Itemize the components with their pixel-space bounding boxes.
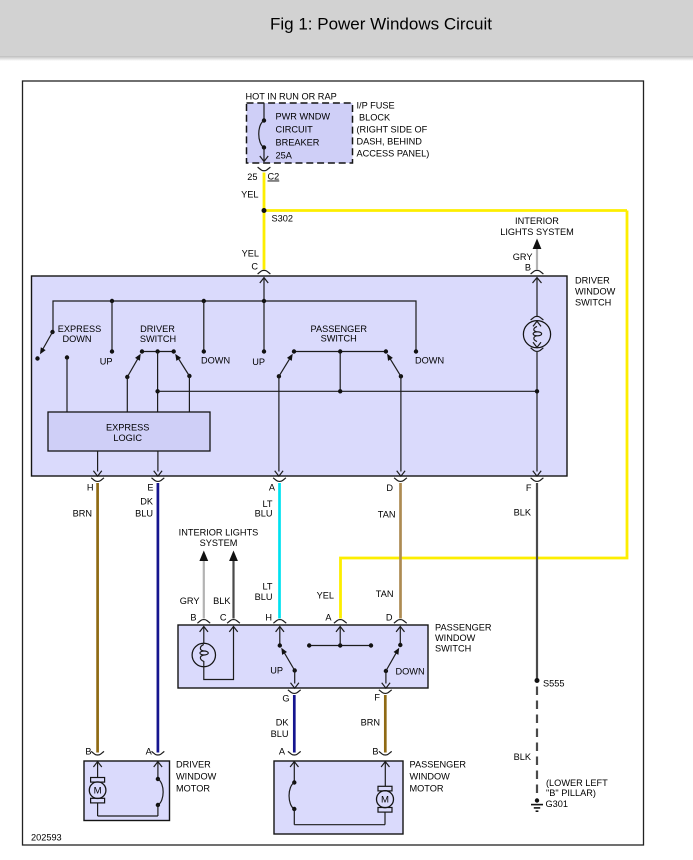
svg-text:MOTOR: MOTOR [410,784,444,794]
label I/P FUSE BLOCK (RIGHT SIDE OF DASH, BEHIND ACCESS PANEL) [357,101,430,159]
svg-text:UP: UP [252,357,265,367]
svg-text:PASSENGER: PASSENGER [311,324,368,334]
svg-text:MOTOR: MOTOR [176,784,210,794]
wire BRN F to motor B [384,695,387,753]
driver motor arc contact [154,762,163,816]
svg-text:SWITCH: SWITCH [435,644,471,654]
label PASSENGER WINDOW SWITCH [435,623,492,654]
connector E [147,478,164,493]
passenger motor bottom wire [294,824,385,826]
svg-text:G: G [282,694,289,704]
label PWR WNDW CIRCUIT BREAKER 25A [276,112,331,161]
passenger motor M symbol [377,762,394,825]
svg-text:F: F [374,693,380,703]
circuit breaker CB 25A [259,103,268,162]
svg-text:B: B [372,747,378,757]
svg-text:C: C [220,613,227,623]
driver switch UP contact [100,301,114,367]
svg-text:YEL: YEL [242,249,259,259]
connector G below passenger switch [282,690,300,704]
driver switch center wire [157,352,159,413]
svg-text:G301: G301 [546,799,568,809]
svg-text:B: B [85,747,91,757]
connector C dome (passenger switch) [227,620,240,624]
wire LT BLU A to passenger switch [278,483,281,619]
driver window motor box [84,761,170,821]
svg-text:I/P FUSE: I/P FUSE [357,101,395,111]
passenger switch DOWN arm [382,646,425,688]
driver switch DOWN contact [201,301,230,366]
passenger window motor box [274,761,403,834]
node bus / driver DOWN junction [202,299,206,303]
svg-text:(RIGHT SIDE OF: (RIGHT SIDE OF [357,125,428,135]
connector A dome (passenger switch) [334,620,347,624]
svg-text:HOT IN RUN OR RAP: HOT IN RUN OR RAP [246,92,337,102]
svg-text:(LOWER LEFT: (LOWER LEFT [546,778,608,788]
passenger switch contact row [292,349,388,353]
connector H dome (passenger switch) [273,620,286,624]
svg-text:H: H [87,483,94,493]
I/P fuse block box (dashed) [247,103,353,163]
svg-text:F: F [526,483,532,493]
svg-text:TAN: TAN [378,510,396,520]
svg-text:Fig 1: Power Windows Circuit: Fig 1: Power Windows Circuit [270,15,492,34]
svg-text:BLK: BLK [514,752,532,762]
svg-text:LOGIC: LOGIC [113,433,142,443]
express logic outputs [93,451,162,476]
svg-text:SWITCH: SWITCH [575,298,611,308]
svg-text:BLK: BLK [514,508,532,518]
label DRIVER WINDOW MOTOR [176,760,217,794]
connector B above passenger motor [372,747,391,757]
connector D dome (passenger switch) [394,620,407,624]
node center junction [155,389,159,393]
connector A [269,478,286,493]
svg-text:GRY: GRY [180,596,200,606]
svg-text:S555: S555 [543,679,564,689]
svg-text:WINDOW: WINDOW [435,633,476,643]
driver switch left arm [125,352,143,412]
svg-text:GRY: GRY [513,252,533,262]
svg-text:BLOCK: BLOCK [359,113,391,123]
driver window switch box [32,276,568,476]
wire DK BLU G to motor A [293,695,296,753]
connector C entry dome [258,270,271,274]
svg-text:M: M [94,786,102,797]
svg-text:SWITCH: SWITCH [321,334,357,344]
connector D [386,478,407,493]
connector F [526,478,544,493]
driver switch right arm [173,352,192,412]
passenger switch UP contact [252,349,266,367]
wire TAN D to passenger switch [399,483,402,619]
svg-text:DRIVER: DRIVER [575,276,610,286]
bus wire top [53,301,416,352]
svg-text:UP: UP [100,357,113,367]
driver motor bottom wire [98,815,158,817]
svg-text:25A: 25A [276,151,293,161]
wire horizontal link [158,390,537,392]
svg-text:DOWN: DOWN [396,667,425,677]
passenger window switch box [178,625,428,688]
passenger switch H wire [276,627,284,648]
svg-text:M: M [381,795,389,806]
INTERIOR LIGHTS SYSTEM (middle) [179,528,259,619]
passenger switch center wire [338,352,342,394]
svg-text:DRIVER: DRIVER [140,324,175,334]
passenger switch D wire [396,627,404,648]
svg-text:WINDOW: WINDOW [575,287,616,297]
svg-text:E: E [147,483,153,493]
svg-text:BLK: BLK [213,596,231,606]
svg-text:DRIVER: DRIVER [176,760,211,770]
svg-text:D: D [386,483,393,493]
svg-text:DOWN: DOWN [415,356,444,366]
svg-text:DOWN: DOWN [201,356,230,366]
driver switch contact row [140,349,176,353]
svg-text:EXPRESS: EXPRESS [58,324,101,334]
svg-text:S302: S302 [272,214,293,224]
svg-text:BLU: BLU [135,509,153,519]
passenger switch A wire [336,627,344,646]
svg-text:LT: LT [262,499,272,509]
svg-text:202593: 202593 [31,833,62,843]
connector F below passenger switch [374,690,391,703]
svg-text:DK: DK [276,718,290,728]
connector H below driver box [87,478,104,493]
svg-text:TAN: TAN [376,589,394,599]
splice S302 [262,208,267,213]
svg-text:B: B [525,263,531,273]
svg-text:DK: DK [140,497,154,507]
passenger motor arc contact [289,762,298,825]
wire DK BLU E to motor [157,483,160,753]
lamp circuit in passenger switch [192,627,238,680]
passenger switch bus row [307,643,373,647]
svg-text:INTERIOR: INTERIOR [515,216,559,226]
svg-text:25: 25 [247,172,257,182]
express down switch [35,330,69,412]
svg-text:WINDOW: WINDOW [176,772,217,782]
wire BLK dashed to ground [536,687,538,798]
svg-text:CIRCUIT: CIRCUIT [276,125,314,135]
svg-text:LT: LT [262,582,272,592]
svg-text:C2: C2 [268,172,280,182]
svg-text:H: H [265,613,272,623]
svg-text:A: A [269,483,276,493]
wire BLK F to S555 [536,483,538,680]
passenger switch UP arm [270,646,299,688]
svg-text:LIGHTS SYSTEM: LIGHTS SYSTEM [500,227,574,237]
svg-text:UP: UP [270,666,283,676]
svg-text:B: B [190,613,196,623]
wire YEL S302 right [264,209,627,212]
splice S555 [535,678,540,683]
svg-text:BRN: BRN [361,718,380,728]
svg-text:A: A [325,613,332,623]
svg-text:C: C [251,262,258,272]
driver motor M symbol [89,762,106,816]
svg-text:PASSENGER: PASSENGER [410,760,467,770]
svg-text:BRN: BRN [73,509,92,519]
page frame [23,81,644,845]
node bus / C entry junction [262,299,266,303]
svg-text:SWITCH: SWITCH [140,334,176,344]
connector B above driver motor [85,747,104,757]
connector B dome (passenger switch) [197,620,210,624]
svg-text:YEL: YEL [317,591,334,601]
wire YEL S302 to C [263,211,266,270]
connector A above driver motor [146,747,165,757]
svg-text:PASSENGER: PASSENGER [435,623,492,633]
wire YEL right side down [341,211,628,619]
node bus / driver UP junction [110,299,114,303]
svg-text:YEL: YEL [241,190,258,200]
svg-text:BLU: BLU [255,509,273,519]
ground G301 [531,798,543,811]
svg-text:A: A [279,747,286,757]
label PASSENGER WINDOW MOTOR [410,760,467,794]
label DRIVER WINDOW SWITCH [575,276,616,308]
svg-text:BLU: BLU [271,729,289,739]
express logic box [48,412,210,451]
svg-text:A: A [146,747,153,757]
svg-text:INTERIOR LIGHTS: INTERIOR LIGHTS [179,528,259,538]
lamp circuit in driver switch [523,278,550,477]
svg-text:BREAKER: BREAKER [276,138,320,148]
INTERIOR LIGHTS SYSTEM (top right) [500,216,574,274]
passenger switch DOWN contact [414,349,444,365]
svg-text:BLU: BLU [255,592,273,602]
passenger switch left arm [275,352,295,476]
svg-text:WINDOW: WINDOW [410,772,451,782]
passenger switch right arm [385,352,405,476]
svg-text:PWR WNDW: PWR WNDW [276,112,331,122]
wire BRN H to motor [96,483,99,753]
svg-text:EXPRESS: EXPRESS [106,423,149,433]
svg-text:SYSTEM: SYSTEM [200,538,238,548]
svg-text:ACCESS PANEL): ACCESS PANEL) [357,149,430,159]
svg-text:"B" PILLAR): "B" PILLAR) [546,788,596,798]
svg-text:D: D [386,613,393,623]
wire C entry into box [260,278,268,352]
header bar [0,0,693,61]
connector C2 pin 25 [247,167,279,182]
wire YEL fuse to S302 [263,173,266,211]
svg-text:DOWN: DOWN [62,334,91,344]
svg-text:DASH, BEHIND: DASH, BEHIND [357,137,423,147]
connector A above passenger motor [279,747,301,757]
